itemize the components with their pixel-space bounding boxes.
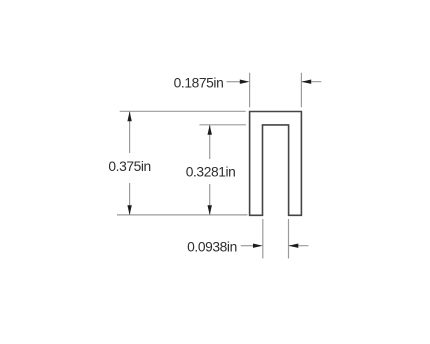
- svg-text:0.1875in: 0.1875in: [174, 76, 224, 91]
- dimension line tail right (0.1875in): [301, 81, 321, 83]
- dimension line lower segment (0.3281in): [209, 184, 211, 215]
- arrowhead right pointing left (0.1875in): [301, 80, 311, 84]
- arrowhead right pointing left (0.0938in): [289, 244, 299, 248]
- extension line left of slot width dimension: [262, 219, 264, 259]
- dimension line upper segment (0.3281in): [209, 125, 211, 159]
- arrowhead down (0.3281in): [208, 205, 212, 215]
- svg-text:0.0938in: 0.0938in: [187, 239, 237, 254]
- U-channel profile outline: [250, 112, 302, 216]
- dimension line tail right (0.0938in): [289, 245, 309, 247]
- extension line top of overall height dimension: [120, 110, 246, 112]
- arrowhead up (0.375in): [127, 112, 131, 122]
- arrowhead left pointing right (0.0938in): [253, 244, 263, 248]
- extension line right of top width dimension: [300, 73, 302, 108]
- extension line right of slot width dimension: [288, 219, 290, 259]
- dimension line lower segment (0.375in): [129, 183, 131, 215]
- extension line of slot depth dimension: [199, 124, 246, 126]
- dimension line tail left (0.1875in): [227, 81, 241, 83]
- arrowhead up (0.3281in): [208, 125, 212, 135]
- dimension line upper segment (0.375in): [129, 112, 131, 154]
- dimension line tail left (0.0938in): [241, 245, 254, 247]
- extension line bottom of overall height dimension: [117, 214, 248, 216]
- arrowhead left pointing right (0.1875in): [240, 80, 250, 84]
- svg-text:0.375in: 0.375in: [108, 159, 150, 174]
- arrowhead down (0.375in): [127, 205, 131, 215]
- svg-text:0.3281in: 0.3281in: [186, 165, 236, 180]
- extension line left of top width dimension: [249, 73, 251, 108]
